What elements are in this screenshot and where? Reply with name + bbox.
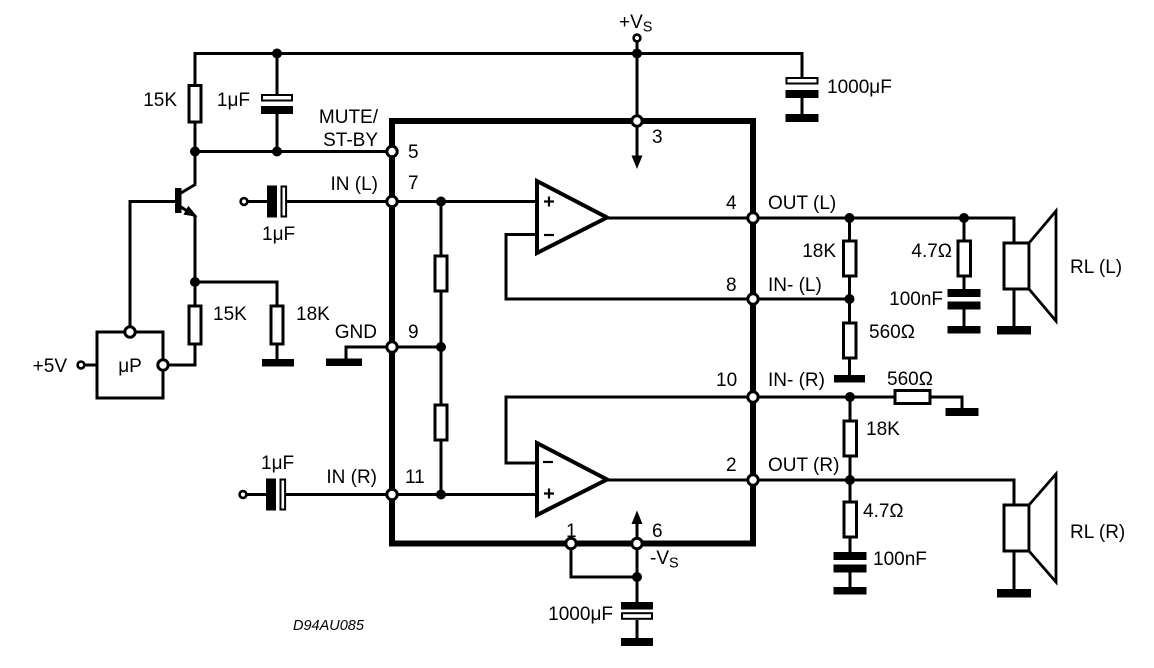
junction node OUT L 18K <box>845 213 855 223</box>
wire pin9 to ground <box>346 347 389 359</box>
arrowhead pin 6 (up) <box>632 511 643 525</box>
wire 18K lower bottom lead <box>276 343 279 359</box>
ground bar under speaker R <box>997 589 1031 598</box>
wire pin1 to -Vs node <box>571 549 639 577</box>
wire pin8 row to 560 ohm <box>751 298 850 301</box>
wire 560 ohm L leads <box>848 298 851 323</box>
wire emitter of Q1 <box>181 207 195 216</box>
wire IN (L) coupling <box>247 200 268 203</box>
wire OUT (L) row <box>606 218 1014 244</box>
wire pin6 to -Vs node and 1000uF <box>636 549 639 602</box>
op-amp A (left channel) <box>537 181 607 253</box>
wire speaker R bottom lead <box>1013 551 1016 589</box>
wire base of Q1 to uP <box>130 202 176 328</box>
wire 560 ohm R right to ground <box>930 397 962 408</box>
svg-text:μP: μP <box>118 356 142 377</box>
pin 4 circle <box>748 213 758 223</box>
svg-text:6: 6 <box>652 521 663 542</box>
transistor Q1 base bar <box>175 188 182 213</box>
ground bar under 560 ohm L <box>834 375 865 383</box>
terminal +Vs <box>634 35 641 42</box>
wire pin7 to op-amp A + input <box>392 200 539 203</box>
junction node pin7 divider <box>436 197 446 207</box>
capacitor 100nF (left channel) <box>948 289 981 310</box>
resistor 15K (top) <box>189 86 201 123</box>
op-amp B (right channel) <box>537 443 607 515</box>
resistor 4.7 ohm (left channel) <box>958 241 971 276</box>
wire 15K bottom to node <box>194 121 197 153</box>
wire OUT (R) row <box>606 480 1014 506</box>
capacitor 1000uF (bottom, -Vs) <box>621 602 653 619</box>
pin 3 circle <box>632 116 642 126</box>
junction node 15K mute <box>190 147 200 157</box>
wire 1000uF bottom to ground bar <box>636 620 639 638</box>
pin 2 circle <box>748 475 758 485</box>
junction node 1uF mute <box>272 147 282 157</box>
uP top pin circle <box>125 327 135 337</box>
junction node OUT R 4.7 ohm <box>845 475 855 485</box>
svg-text:4.7Ω: 4.7Ω <box>911 241 952 262</box>
svg-text:4.7Ω: 4.7Ω <box>863 501 904 522</box>
svg-text:OUT (L): OUT (L) <box>768 193 836 214</box>
resistor 560 ohm (right channel, horizontal) <box>895 391 930 404</box>
svg-text:1μF: 1μF <box>262 224 295 245</box>
wire pin6 arrow shaft <box>636 522 639 540</box>
wire collector of Q1 <box>194 150 197 184</box>
capacitor 1uF (mute, top) <box>261 95 293 114</box>
resistor 560 ohm (left channel) <box>844 323 857 358</box>
svg-text:10: 10 <box>716 370 737 391</box>
resistor 15K (lower) <box>189 306 201 344</box>
svg-text:3: 3 <box>652 127 663 148</box>
svg-text:15K: 15K <box>213 304 247 325</box>
svg-text:560Ω: 560Ω <box>869 322 915 343</box>
uP block <box>97 332 163 398</box>
svg-text:1μF: 1μF <box>217 90 250 111</box>
svg-text:15K: 15K <box>143 90 177 111</box>
svg-text:D94AU085: D94AU085 <box>293 618 365 634</box>
terminal IN (R) <box>240 491 247 498</box>
svg-text:ST-BY: ST-BY <box>323 130 378 151</box>
ground bar 560 ohm R <box>946 408 979 416</box>
terminal IN (L) <box>241 198 248 205</box>
pin 1 circle <box>566 538 576 548</box>
ground bar under 1000uF bottom <box>621 638 653 646</box>
pin 6 circle <box>632 538 642 548</box>
wire internal divider bottom <box>440 440 443 495</box>
pin 10 circle <box>748 392 758 402</box>
wire IN (R) coupling <box>246 493 267 496</box>
wire speaker L bottom lead <box>1013 289 1016 326</box>
capacitor 1uF (IN L coupling) <box>267 186 286 218</box>
svg-text:18K: 18K <box>296 304 330 325</box>
wire emitter node to 18K <box>194 282 277 307</box>
svg-text:RL (R): RL (R) <box>1070 522 1125 543</box>
svg-text:1000μF: 1000μF <box>548 604 613 625</box>
svg-text:IN (L): IN (L) <box>331 174 379 195</box>
ground bar under speaker L <box>997 326 1031 335</box>
wire 4.7 ohm L leads <box>963 217 966 241</box>
junction node -Vs cap <box>632 572 642 582</box>
svg-text:18K: 18K <box>866 419 900 440</box>
wire pin9 internal stub <box>392 346 441 349</box>
capacitor 1000uF (top right) <box>786 78 819 122</box>
wire pin3 arrow shaft <box>636 124 639 157</box>
resistor 18K (right channel) <box>844 421 857 456</box>
pin 7 circle <box>387 196 397 206</box>
wire 15K lower bottom to uP <box>169 343 195 365</box>
wire pin10 row to 560 ohm R <box>751 396 895 399</box>
svg-text:GND: GND <box>335 322 377 343</box>
svg-text:IN- (L): IN- (L) <box>768 275 822 296</box>
svg-text:1: 1 <box>566 521 577 542</box>
wire 1uF top lead <box>276 52 279 95</box>
wire 15K top feed <box>194 52 197 86</box>
wire 100nF L bottom lead <box>963 309 966 326</box>
ground bar under 100nF R <box>834 587 867 595</box>
svg-text:1μF: 1μF <box>261 453 294 474</box>
wire internal divider top <box>440 202 443 257</box>
wire 100nF R bottom lead <box>849 572 852 587</box>
svg-text:7: 7 <box>408 173 419 194</box>
resistor 18K (lower) <box>271 306 283 344</box>
pin 8 circle <box>748 294 758 304</box>
resistor divider lower (internal) <box>435 405 447 440</box>
svg-text:4: 4 <box>726 193 737 214</box>
svg-text:9: 9 <box>408 322 419 343</box>
resistor divider upper (internal) <box>435 256 447 291</box>
wire 18K R leads <box>849 396 852 421</box>
junction node pin10 560 ohm <box>845 392 855 402</box>
junction node top rail / 1uF <box>272 49 282 59</box>
svg-text:+5V: +5V <box>33 356 68 377</box>
speaker RL (R) <box>1004 474 1056 582</box>
resistor 4.7 ohm (right channel) <box>844 502 857 537</box>
capacitor 1uF (IN R coupling) <box>266 479 285 511</box>
svg-text:8: 8 <box>726 275 737 296</box>
svg-text:560Ω: 560Ω <box>887 369 933 390</box>
junction node emitter <box>190 277 200 287</box>
svg-text:100nF: 100nF <box>889 289 943 310</box>
svg-text:5: 5 <box>408 142 419 163</box>
svg-text:RL (L): RL (L) <box>1070 257 1122 278</box>
junction node OUT L 4.7 ohm <box>959 213 969 223</box>
ground bar under 18K lower <box>262 359 294 367</box>
svg-text:OUT (R): OUT (R) <box>768 455 839 476</box>
ground GND at pin 9 <box>326 359 362 367</box>
svg-text:18K: 18K <box>802 241 836 262</box>
svg-text:IN- (R): IN- (R) <box>768 370 825 391</box>
wire top rail right drop to 1000uF <box>801 52 804 78</box>
wire mute node to pin 5 <box>195 150 392 153</box>
pin 5 circle <box>387 146 397 156</box>
svg-text:11: 11 <box>405 467 425 488</box>
IC U1 outline <box>392 121 753 544</box>
resistor 18K (left channel) <box>844 241 857 276</box>
wire +5V to uP <box>84 364 97 367</box>
wire 1uF bottom lead <box>276 113 279 152</box>
wire +Vs drop to pin 3 <box>636 41 639 117</box>
svg-text:1000μF: 1000μF <box>827 77 892 98</box>
wire op-amp B feedback <box>506 397 751 463</box>
junction node +Vs rail <box>632 49 642 59</box>
wire internal divider middle <box>440 291 443 405</box>
junction node pin11 divider <box>436 490 446 500</box>
junction node pin9 divider <box>436 342 446 352</box>
svg-text:IN (R): IN (R) <box>326 467 377 488</box>
terminal +5V <box>78 362 85 369</box>
transistor Q1 emitter arrowhead <box>185 208 195 216</box>
uP right pin circle <box>158 360 168 370</box>
ground bar under 100nF L <box>948 326 981 334</box>
pin 11 circle <box>387 489 397 499</box>
wire op-amp A feedback <box>506 235 751 300</box>
svg-text:2: 2 <box>726 455 737 476</box>
speaker RL (L) <box>1004 211 1056 321</box>
pin 9 circle <box>387 342 397 352</box>
svg-text:100nF: 100nF <box>873 549 927 570</box>
arrowhead pin 3 (down) <box>632 156 643 170</box>
wire emitter node to 15K <box>194 281 197 307</box>
svg-text:MUTE/: MUTE/ <box>319 107 379 128</box>
wire pin11 to op-amp B + input <box>392 493 539 496</box>
junction node pin8 560 ohm <box>845 294 855 304</box>
wire 18K L leads <box>848 217 851 241</box>
wire top supply rail <box>195 52 802 55</box>
capacitor 100nF (right channel) <box>834 552 867 573</box>
wire 4.7 ohm R leads <box>849 479 852 502</box>
